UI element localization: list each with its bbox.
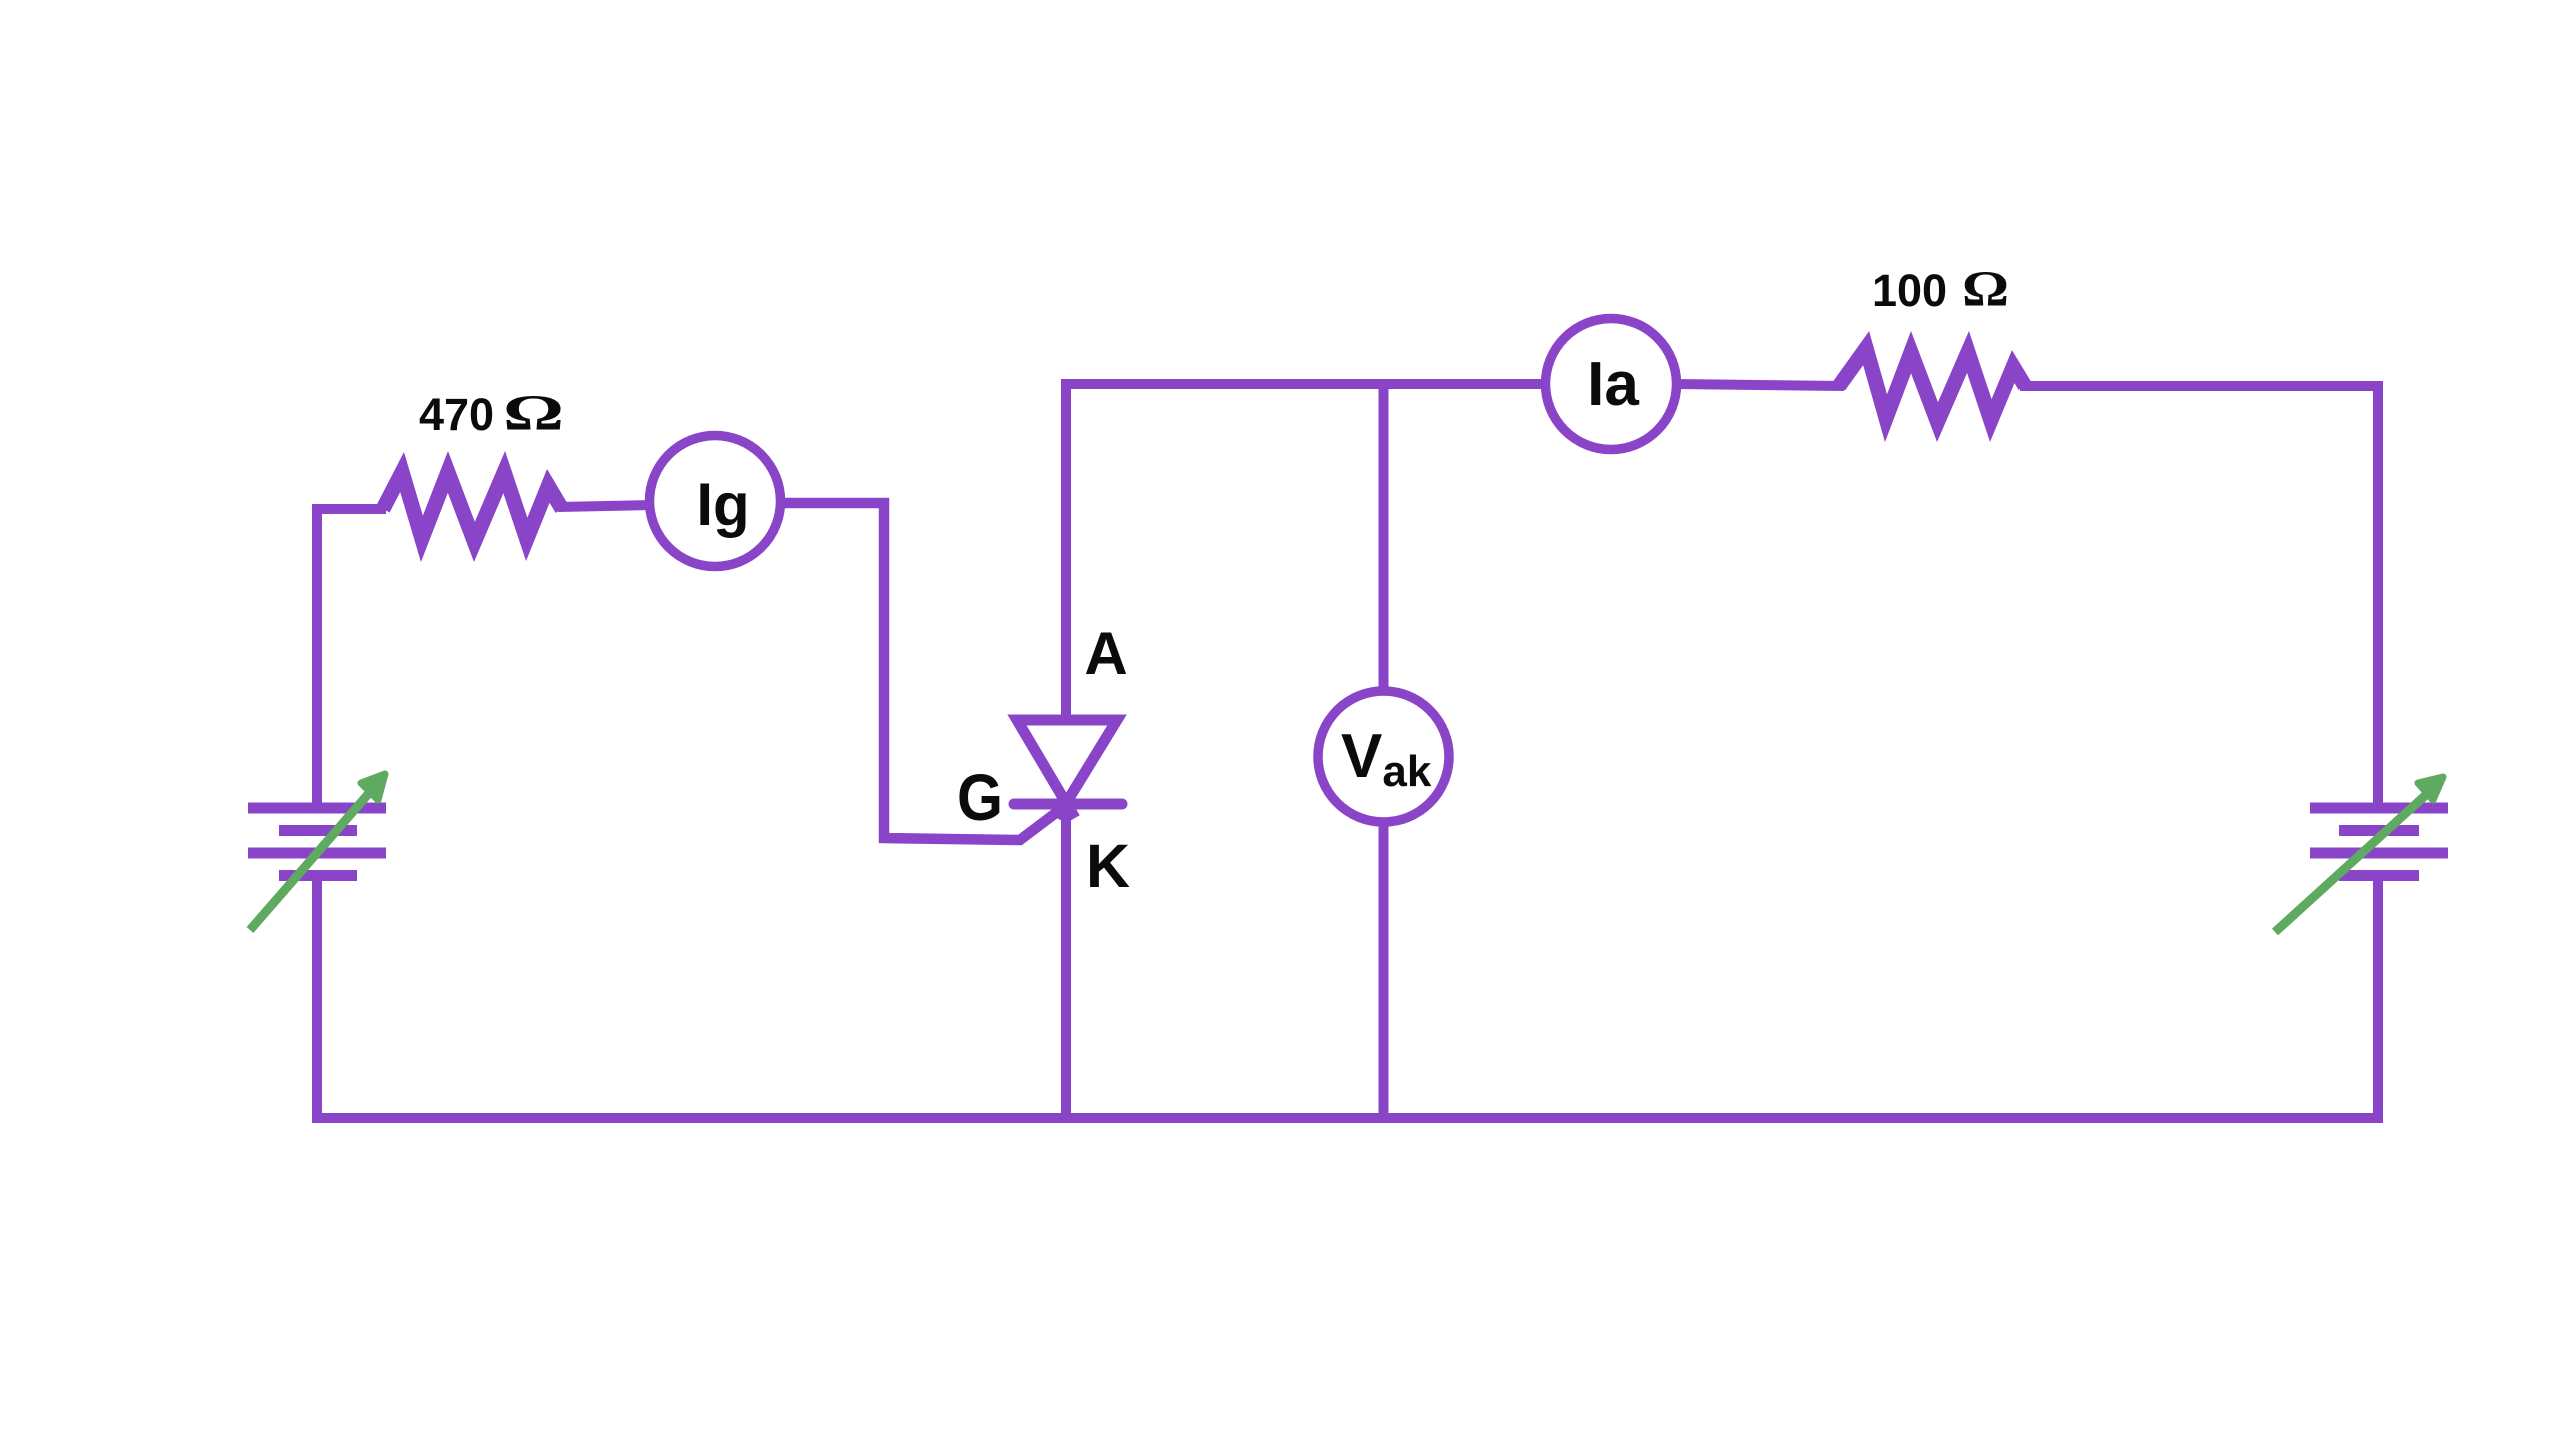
wire: right vertical from battery E2 to bottom rail (2373, 876, 2383, 1123)
svg-text:100: 100 (1872, 265, 1947, 316)
wire: resistor R2 right lead, right vertical down to battery E2 (2020, 386, 2378, 803)
resistor R2 100 ohm (zigzag) (1839, 348, 2025, 422)
wire: Vak branch lower (voltmeter to bottom rail) (1379, 820, 1389, 1123)
variable source E2: battery plates (2310, 808, 2448, 876)
svg-text:Ω: Ω (503, 386, 564, 442)
wire: 470 ohm left lead and left vertical from battery E1 positive (317, 509, 386, 806)
ammeter Ig (circle) (650, 436, 781, 567)
svg-text:Ia: Ia (1587, 350, 1639, 419)
wire: SCR cathode lead K to bottom rail (1061, 800, 1071, 1123)
label: cathode K (1086, 832, 1130, 900)
svg-text:K: K (1086, 832, 1130, 900)
label: 470 ohm value (419, 386, 564, 442)
ammeter Ia (circle) (1546, 319, 1677, 450)
wire: top rail between ammeter Ia and resistor R2 (1676, 384, 1844, 386)
label: gate G (957, 760, 1003, 834)
voltmeter Vak (circle) (1318, 691, 1449, 822)
variable source E1: battery plates (248, 808, 386, 876)
wire: left vertical from battery E1 negative to bottom rail (312, 876, 322, 1123)
wire: ammeter Ig to gate G of SCR (778, 503, 1061, 840)
variable source E1: green adjustment arrow (250, 774, 385, 930)
label: anode A (1084, 620, 1127, 687)
svg-text:G: G (957, 760, 1003, 834)
wire: Vak branch upper (top rail to voltmeter) (1379, 379, 1389, 694)
label: 100 ohm value (1872, 262, 2009, 318)
variable source E2: green adjustment arrow (2275, 777, 2443, 932)
svg-text:A: A (1084, 620, 1127, 687)
svg-text:470: 470 (419, 389, 494, 440)
svg-text:Ig: Ig (696, 471, 749, 538)
wire: bottom rail (common return) (312, 1113, 2383, 1123)
resistor R1 470 ohm (zigzag) (383, 472, 562, 542)
wire: resistor R1 to ammeter Ig (558, 505, 652, 507)
thyristor SCR: cathode bar (1014, 799, 1122, 810)
svg-text:Ω: Ω (1962, 262, 2009, 318)
thyristor SCR: triangle (anode to cathode) (1017, 720, 1117, 818)
wire: SCR anode lead and top rail left segment to Vak/Ia node (1066, 384, 1550, 716)
